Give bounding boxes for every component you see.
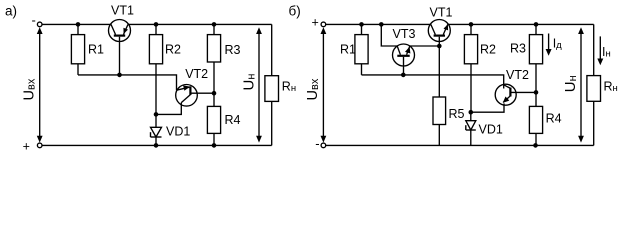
svg-text:+: + (312, 15, 319, 29)
wire top rail right b (448, 23, 594, 25)
svg-text:-: - (32, 13, 36, 28)
resistor R2 b (464, 24, 477, 112)
node zener junction b (469, 110, 474, 115)
svg-text:а): а) (5, 3, 17, 18)
resistor R1 b (355, 24, 368, 75)
label Rn a (282, 80, 296, 95)
wire bottom rail b (326, 144, 594, 146)
label In (602, 45, 611, 60)
svg-text:R5: R5 (449, 107, 465, 121)
svg-text:VT1: VT1 (111, 3, 134, 17)
svg-text:R1: R1 (340, 43, 356, 57)
input terminal top left a (37, 22, 42, 27)
transistor VT2 b (471, 84, 536, 112)
svg-text:VT2: VT2 (185, 67, 208, 81)
svg-text:+: + (23, 139, 30, 153)
resistor R4 b (529, 92, 542, 145)
label VT2 a (185, 67, 208, 81)
current arrow Id (546, 34, 552, 56)
node R3 top a (212, 22, 217, 27)
svg-text:VT3: VT3 (393, 27, 416, 41)
resistor R4 a (207, 93, 220, 145)
minus sign input b (315, 136, 319, 151)
voltage arrow Un b (578, 27, 584, 142)
node R2 top a (154, 22, 159, 27)
transistor VT3 (393, 44, 415, 75)
svg-text:R4: R4 (225, 113, 241, 127)
wire bottom rail a (42, 144, 271, 146)
resistor R3 a (207, 24, 220, 93)
node R1 top b (359, 22, 364, 27)
voltage arrow Uvx a (37, 27, 43, 142)
svg-text:R1: R1 (88, 43, 104, 57)
svg-text:R2: R2 (480, 43, 496, 57)
label VT1 a (111, 3, 134, 17)
resistor R5 b (433, 46, 446, 145)
label Uvx a (22, 78, 38, 100)
label Uvx b (305, 78, 321, 100)
label Rn b (604, 80, 618, 95)
plus sign input a (23, 139, 30, 153)
svg-text:R4: R4 (546, 112, 562, 126)
voltage arrow Uvx b (321, 27, 327, 142)
label Un b (562, 75, 579, 92)
svg-text:VT1: VT1 (430, 6, 453, 20)
label VT2 b (506, 68, 529, 82)
load resistor Rn b (587, 24, 601, 145)
transistor VT1 b (428, 20, 450, 47)
zener diode VD1 a (151, 114, 162, 145)
resistor R3 b (529, 24, 542, 92)
transistor VT2 a (156, 85, 214, 115)
node VT1 base junction a (117, 73, 122, 78)
label R3 a (225, 43, 241, 57)
minus sign input a (32, 13, 36, 28)
node R2 top b (469, 22, 474, 27)
current arrow In (597, 36, 603, 65)
node VT3 base b (401, 73, 406, 78)
resistor R1 a (71, 24, 84, 75)
plus sign input b (312, 15, 319, 29)
label R4 b (546, 112, 562, 126)
label Id (553, 36, 562, 51)
node R4 bottom b (533, 143, 538, 148)
label VD1 a (166, 124, 190, 138)
svg-text:VD1: VD1 (166, 124, 190, 138)
input terminal bottom left a (37, 143, 42, 148)
wire top rail right a (128, 23, 272, 25)
transistor VT1 a (109, 20, 131, 75)
label Un a (240, 74, 257, 91)
label R1 a (88, 43, 104, 57)
wire base bus a (78, 75, 177, 90)
wire top rail left b (326, 23, 431, 25)
input terminal bottom left b (321, 143, 326, 148)
node VT3 collector corner b (379, 22, 384, 27)
wire base bus b (362, 75, 504, 89)
node divider tap b (534, 90, 539, 95)
label VT3 (393, 27, 416, 41)
svg-text:б): б) (289, 4, 301, 19)
node R3 top b (534, 22, 539, 27)
panel label b (289, 4, 301, 19)
zener diode VD1 b (466, 112, 476, 145)
svg-text:VD1: VD1 (479, 122, 503, 136)
svg-text:VT2: VT2 (506, 68, 529, 82)
svg-text:R2: R2 (165, 43, 181, 57)
svg-text:R3: R3 (510, 42, 526, 56)
label R4 a (225, 113, 241, 127)
node VD1 bottom a (154, 143, 159, 148)
resistor R2 a (149, 24, 162, 114)
node R1 top a (76, 22, 81, 27)
label VT1 b (430, 6, 453, 20)
node zener R2 junction a (154, 112, 159, 117)
wire top rail left a (42, 23, 111, 25)
wire VT3 emitter to VT1 base (410, 45, 440, 47)
svg-text:-: - (315, 136, 319, 151)
wire VT3 collector b (381, 24, 397, 46)
label R2 a (165, 43, 181, 57)
panel label a (5, 3, 17, 18)
voltage arrow Un a (256, 27, 262, 142)
node divider tap a (212, 91, 217, 96)
node VT1 base b (437, 44, 442, 49)
input terminal top left b (321, 22, 326, 27)
label R5 b (449, 107, 465, 121)
label R3 b (510, 42, 526, 56)
node R4 bottom a (212, 143, 217, 148)
label VD1 b (479, 122, 503, 136)
svg-text:R3: R3 (225, 43, 241, 57)
label R2 b (480, 43, 496, 57)
label R1 b (340, 43, 356, 57)
load resistor Rn a (265, 24, 279, 145)
